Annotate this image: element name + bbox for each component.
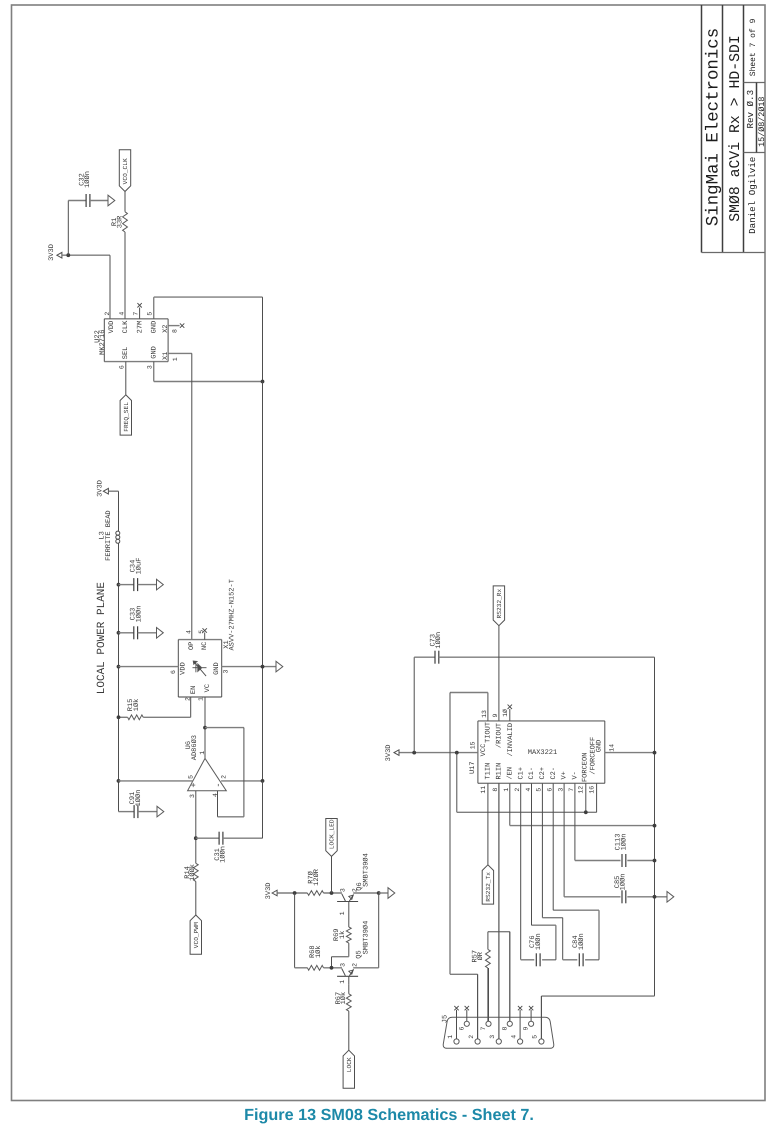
svg-text:TIOUT: TIOUT [485, 722, 493, 743]
svg-text:6: 6 [547, 788, 554, 792]
svg-text:1ØØn: 1ØØn [220, 846, 228, 863]
svg-text:9: 9 [523, 1026, 530, 1030]
svg-text:LOCK: LOCK [346, 1057, 353, 1072]
svg-text:8: 8 [172, 329, 179, 333]
svg-text:VCO_CLK: VCO_CLK [122, 158, 129, 184]
svg-text:GND: GND [213, 662, 221, 675]
svg-text:6: 6 [170, 670, 177, 674]
svg-text:X2: X2 [162, 324, 170, 332]
svg-text:1Øk: 1Øk [339, 992, 348, 1005]
svg-text:C1+: C1+ [517, 767, 525, 780]
svg-text:FREQ_SEL: FREQ_SEL [123, 402, 130, 432]
svg-text:+: + [189, 783, 199, 788]
svg-text:/RIOUT: /RIOUT [495, 723, 504, 748]
svg-text:C2-: C2- [550, 767, 558, 780]
svg-text:2: 2 [468, 1035, 475, 1039]
svg-text:6: 6 [458, 1026, 465, 1030]
svg-text:2: 2 [514, 788, 521, 792]
svg-text:1k: 1k [338, 931, 347, 939]
svg-text:8: 8 [492, 788, 499, 792]
svg-text:4: 4 [525, 788, 532, 792]
svg-text:Sheet 7 of 9: Sheet 7 of 9 [749, 18, 758, 76]
svg-text:3: 3 [339, 963, 346, 967]
svg-text:FERRITE BEAD: FERRITE BEAD [105, 510, 113, 560]
svg-text:11: 11 [480, 786, 487, 794]
svg-text:EN: EN [190, 686, 198, 694]
svg-text:SEL: SEL [122, 347, 130, 360]
svg-text:5: 5 [532, 1035, 539, 1039]
svg-text:1ØØk: 1ØØk [188, 864, 197, 881]
svg-text:/INVALID: /INVALID [506, 723, 515, 757]
svg-text:2: 2 [351, 963, 358, 967]
svg-text:1ØØn: 1ØØn [535, 933, 543, 950]
svg-text:MAX3221: MAX3221 [528, 749, 557, 757]
svg-text:3: 3 [489, 1035, 496, 1039]
svg-text:3: 3 [557, 788, 564, 792]
svg-text:Figure 13 SM08 Schematics - Sh: Figure 13 SM08 Schematics - Sheet 7. [244, 1106, 534, 1124]
svg-text:OP: OP [188, 642, 196, 650]
svg-text:5: 5 [147, 312, 154, 316]
svg-text:1: 1 [339, 980, 346, 984]
svg-text:SingMai Electronics: SingMai Electronics [705, 28, 724, 226]
svg-text:1ØØn: 1ØØn [578, 933, 586, 950]
svg-text:SMØ8 aCVi Rx > HD-SDI: SMØ8 aCVi Rx > HD-SDI [728, 35, 744, 221]
svg-text:1ØØn: 1ØØn [135, 790, 143, 807]
svg-text:Daniel Ogilvie: Daniel Ogilvie [747, 157, 758, 234]
svg-text:1ØuF: 1ØuF [136, 558, 144, 575]
svg-text:15: 15 [470, 741, 477, 749]
svg-text:SMBT39Ø4: SMBT39Ø4 [362, 853, 370, 887]
svg-text:1: 1 [172, 357, 179, 361]
svg-text:T1IN: T1IN [484, 763, 492, 780]
svg-text:-: - [214, 783, 224, 788]
svg-text:VCO_PWM: VCO_PWM [193, 922, 200, 948]
svg-text:4: 4 [186, 630, 193, 634]
svg-text:3: 3 [339, 888, 346, 892]
svg-text:5: 5 [536, 788, 543, 792]
svg-text:RS232_Tx: RS232_Tx [485, 872, 492, 902]
svg-text:NC: NC [201, 642, 209, 650]
svg-text:7: 7 [132, 312, 139, 316]
svg-text:Rev Ø.3: Rev Ø.3 [745, 90, 756, 129]
svg-text:3V3D: 3V3D [97, 480, 105, 497]
svg-text:2: 2 [184, 697, 191, 701]
svg-text:V+: V+ [561, 771, 569, 779]
svg-text:GND: GND [151, 321, 159, 334]
svg-text:12ØR: 12ØR [313, 868, 321, 886]
svg-text:4: 4 [510, 1035, 517, 1039]
svg-text:5: 5 [188, 775, 195, 779]
svg-text:1ØØn: 1ØØn [136, 606, 144, 623]
svg-text:/EN: /EN [505, 767, 514, 780]
svg-text:3V3D: 3V3D [265, 882, 273, 899]
svg-text:14: 14 [609, 744, 616, 752]
svg-text:3: 3 [222, 669, 229, 673]
svg-text:3V3D: 3V3D [48, 244, 56, 261]
svg-text:CLK: CLK [122, 320, 130, 333]
svg-text:R1IN: R1IN [495, 763, 503, 780]
svg-text:ASVV-27MHZ-N152-T: ASVV-27MHZ-N152-T [229, 579, 237, 650]
svg-text:7: 7 [480, 1026, 487, 1030]
svg-text:1ØØn: 1ØØn [84, 171, 92, 188]
svg-text:2: 2 [104, 312, 111, 316]
svg-text:RS232_Rx: RS232_Rx [496, 588, 503, 618]
svg-text:1Øk: 1Øk [314, 945, 323, 958]
svg-text:X1: X1 [162, 352, 170, 360]
svg-text:LOCK_LED: LOCK_LED [329, 819, 336, 849]
svg-text:1: 1 [339, 911, 346, 915]
svg-text:ØR: ØR [477, 951, 485, 960]
svg-text:VDD: VDD [108, 321, 116, 334]
svg-text:1ØØn: 1ØØn [620, 834, 628, 851]
svg-text:3V3D: 3V3D [385, 744, 393, 761]
svg-text:C1-: C1- [528, 767, 536, 780]
svg-text:13: 13 [481, 710, 488, 718]
svg-text:1: 1 [199, 751, 206, 755]
svg-text:1Øk: 1Øk [132, 699, 141, 712]
svg-text:VCC: VCC [480, 744, 488, 757]
svg-text:1: 1 [503, 788, 510, 792]
svg-text:3: 3 [147, 365, 154, 369]
svg-text:VC: VC [204, 684, 212, 692]
svg-text:33R: 33R [117, 215, 125, 228]
svg-text:12: 12 [578, 786, 585, 794]
svg-text:J5: J5 [441, 1015, 449, 1023]
svg-text:1ØØn: 1ØØn [620, 873, 628, 890]
svg-text:3: 3 [189, 794, 196, 798]
svg-text:LOCAL POWER PLANE: LOCAL POWER PLANE [96, 582, 108, 695]
svg-text:C2+: C2+ [539, 767, 547, 780]
svg-text:AD86Ø3: AD86Ø3 [191, 735, 199, 760]
svg-text:VDD: VDD [180, 662, 188, 675]
svg-text:2: 2 [221, 775, 228, 779]
svg-text:6: 6 [119, 365, 126, 369]
svg-text:MK2716: MK2716 [99, 330, 107, 355]
svg-text:9: 9 [492, 713, 499, 717]
svg-text:1: 1 [447, 1035, 454, 1039]
svg-text:V-: V- [572, 771, 580, 779]
svg-text:15/Ø8/2Ø18: 15/Ø8/2Ø18 [757, 97, 767, 147]
svg-text:4: 4 [118, 312, 125, 316]
svg-text:16: 16 [589, 786, 596, 794]
svg-text:8: 8 [501, 1026, 508, 1030]
svg-text:7: 7 [568, 788, 575, 792]
svg-text:1Ø: 1Ø [502, 709, 509, 717]
svg-text:1ØØn: 1ØØn [435, 632, 443, 649]
svg-text:GND: GND [151, 346, 159, 359]
svg-text:/FORCEOFF: /FORCEOFF [588, 737, 597, 775]
svg-text:4: 4 [212, 793, 219, 797]
svg-text:27M: 27M [136, 321, 144, 334]
svg-text:U17: U17 [469, 761, 477, 774]
svg-text:5: 5 [198, 630, 205, 634]
svg-text:1: 1 [198, 697, 205, 701]
svg-text:SMBT39Ø4: SMBT39Ø4 [362, 921, 370, 955]
